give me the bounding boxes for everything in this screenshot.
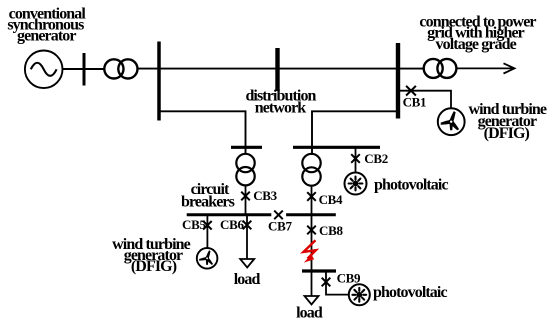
label: distribution network: [245, 87, 316, 116]
wire T3 down to lower busbar LB2: [311, 186, 313, 215]
transformer T1: [104, 59, 137, 78]
wire CB5 branch down from LB1: [206, 215, 208, 248]
busbar B0: [83, 53, 86, 86]
circuit breaker CB6 (X): [243, 221, 252, 230]
fault lightning bolt (red): [304, 240, 316, 262]
svg-text:CB6: CB6: [220, 217, 244, 232]
circuit breaker CB8 (X): [307, 226, 316, 235]
busbar above T3: [293, 146, 380, 149]
wire CB2 branch down from T3 busbar: [355, 147, 357, 172]
svg-text:load: load: [234, 271, 261, 288]
label: wind turbine generator (DFIG) top right: [468, 101, 546, 142]
circuit breaker CB1 (X): [406, 86, 416, 96]
circuit breaker CB2 (X): [351, 154, 360, 163]
svg-text:network: network: [255, 99, 307, 116]
svg-text:breakers: breakers: [181, 194, 235, 211]
svg-text:CB9: CB9: [337, 270, 361, 285]
wire B0 to transformer T1: [84, 68, 105, 70]
wire B3 to T3 drop (L2): [312, 111, 398, 155]
svg-text:voltage grade: voltage grade: [436, 36, 517, 53]
wind turbine generator W2 (bottom left): [197, 248, 218, 269]
photovoltaic PV1 symbol: [345, 173, 367, 195]
svg-text:generator: generator: [17, 28, 76, 45]
label: wind turbine generator (DFIG) bottom left: [112, 236, 190, 275]
load arrow 1: [240, 259, 254, 268]
wire down to load arrow 2: [311, 271, 313, 296]
label: connected to power grid with higher voltage grade: [419, 13, 536, 53]
transformer T3: [302, 154, 320, 186]
svg-text:CB8: CB8: [319, 223, 343, 238]
svg-text:(DFIG): (DFIG): [484, 125, 530, 142]
label: conventional synchronous generator: [7, 5, 86, 44]
svg-text:CB2: CB2: [364, 151, 388, 166]
busbar B3: [396, 43, 400, 119]
svg-text:CB7: CB7: [268, 218, 292, 233]
wire B3 to CB1 branch corner and down to wind turbine: [398, 91, 451, 109]
lower busbar LB1: [187, 213, 272, 216]
wire generator to busbar B0: [62, 68, 84, 70]
svg-text:load: load: [296, 305, 323, 322]
wire T2 down to lower busbar LB1: [245, 185, 247, 215]
main wire T1 to transformer T4: [138, 68, 424, 70]
circuit breaker CB5 (X): [203, 221, 212, 230]
busbar above T2: [231, 146, 262, 149]
svg-text:CB1: CB1: [403, 94, 427, 109]
circuit breaker CB7 (X, bus tie): [274, 211, 283, 220]
svg-text:photovoltaic: photovoltaic: [373, 284, 447, 301]
wire B1 to T2 drop (L1): [159, 111, 246, 154]
wire CB9 branch from lower bar to PV2: [326, 271, 349, 295]
wind turbine generator W1 (top right): [438, 108, 465, 135]
svg-text:photovoltaic: photovoltaic: [374, 177, 448, 194]
label: circuit breakers: [181, 181, 235, 211]
circuit breaker CB3 (X): [241, 192, 250, 201]
wire CB8 branch down from LB2 to lower bar: [311, 215, 313, 271]
wire CB6 branch down from LB1 to load arrow: [246, 215, 248, 259]
svg-text:CB5: CB5: [182, 217, 206, 232]
lower busbar LB2: [286, 213, 336, 216]
transformer T2: [236, 154, 254, 186]
load arrow 2: [305, 296, 319, 305]
svg-text:(DFIG): (DFIG): [131, 258, 177, 275]
transformer T4: [424, 59, 457, 78]
wire T4 to grid with arrow: [456, 63, 514, 73]
svg-text:CB3: CB3: [253, 188, 277, 203]
circuit breaker CB9 (X): [322, 278, 331, 287]
photovoltaic PV2 symbol: [349, 284, 370, 305]
svg-text:CB4: CB4: [319, 192, 343, 207]
circuit breaker CB4 (X): [307, 192, 316, 201]
generator G1 (synchronous generator circle with sine): [25, 51, 63, 89]
lower bar above load 2: [302, 269, 336, 272]
busbar B1: [157, 42, 161, 121]
busbar B2 (distribution network bus): [275, 48, 279, 91]
